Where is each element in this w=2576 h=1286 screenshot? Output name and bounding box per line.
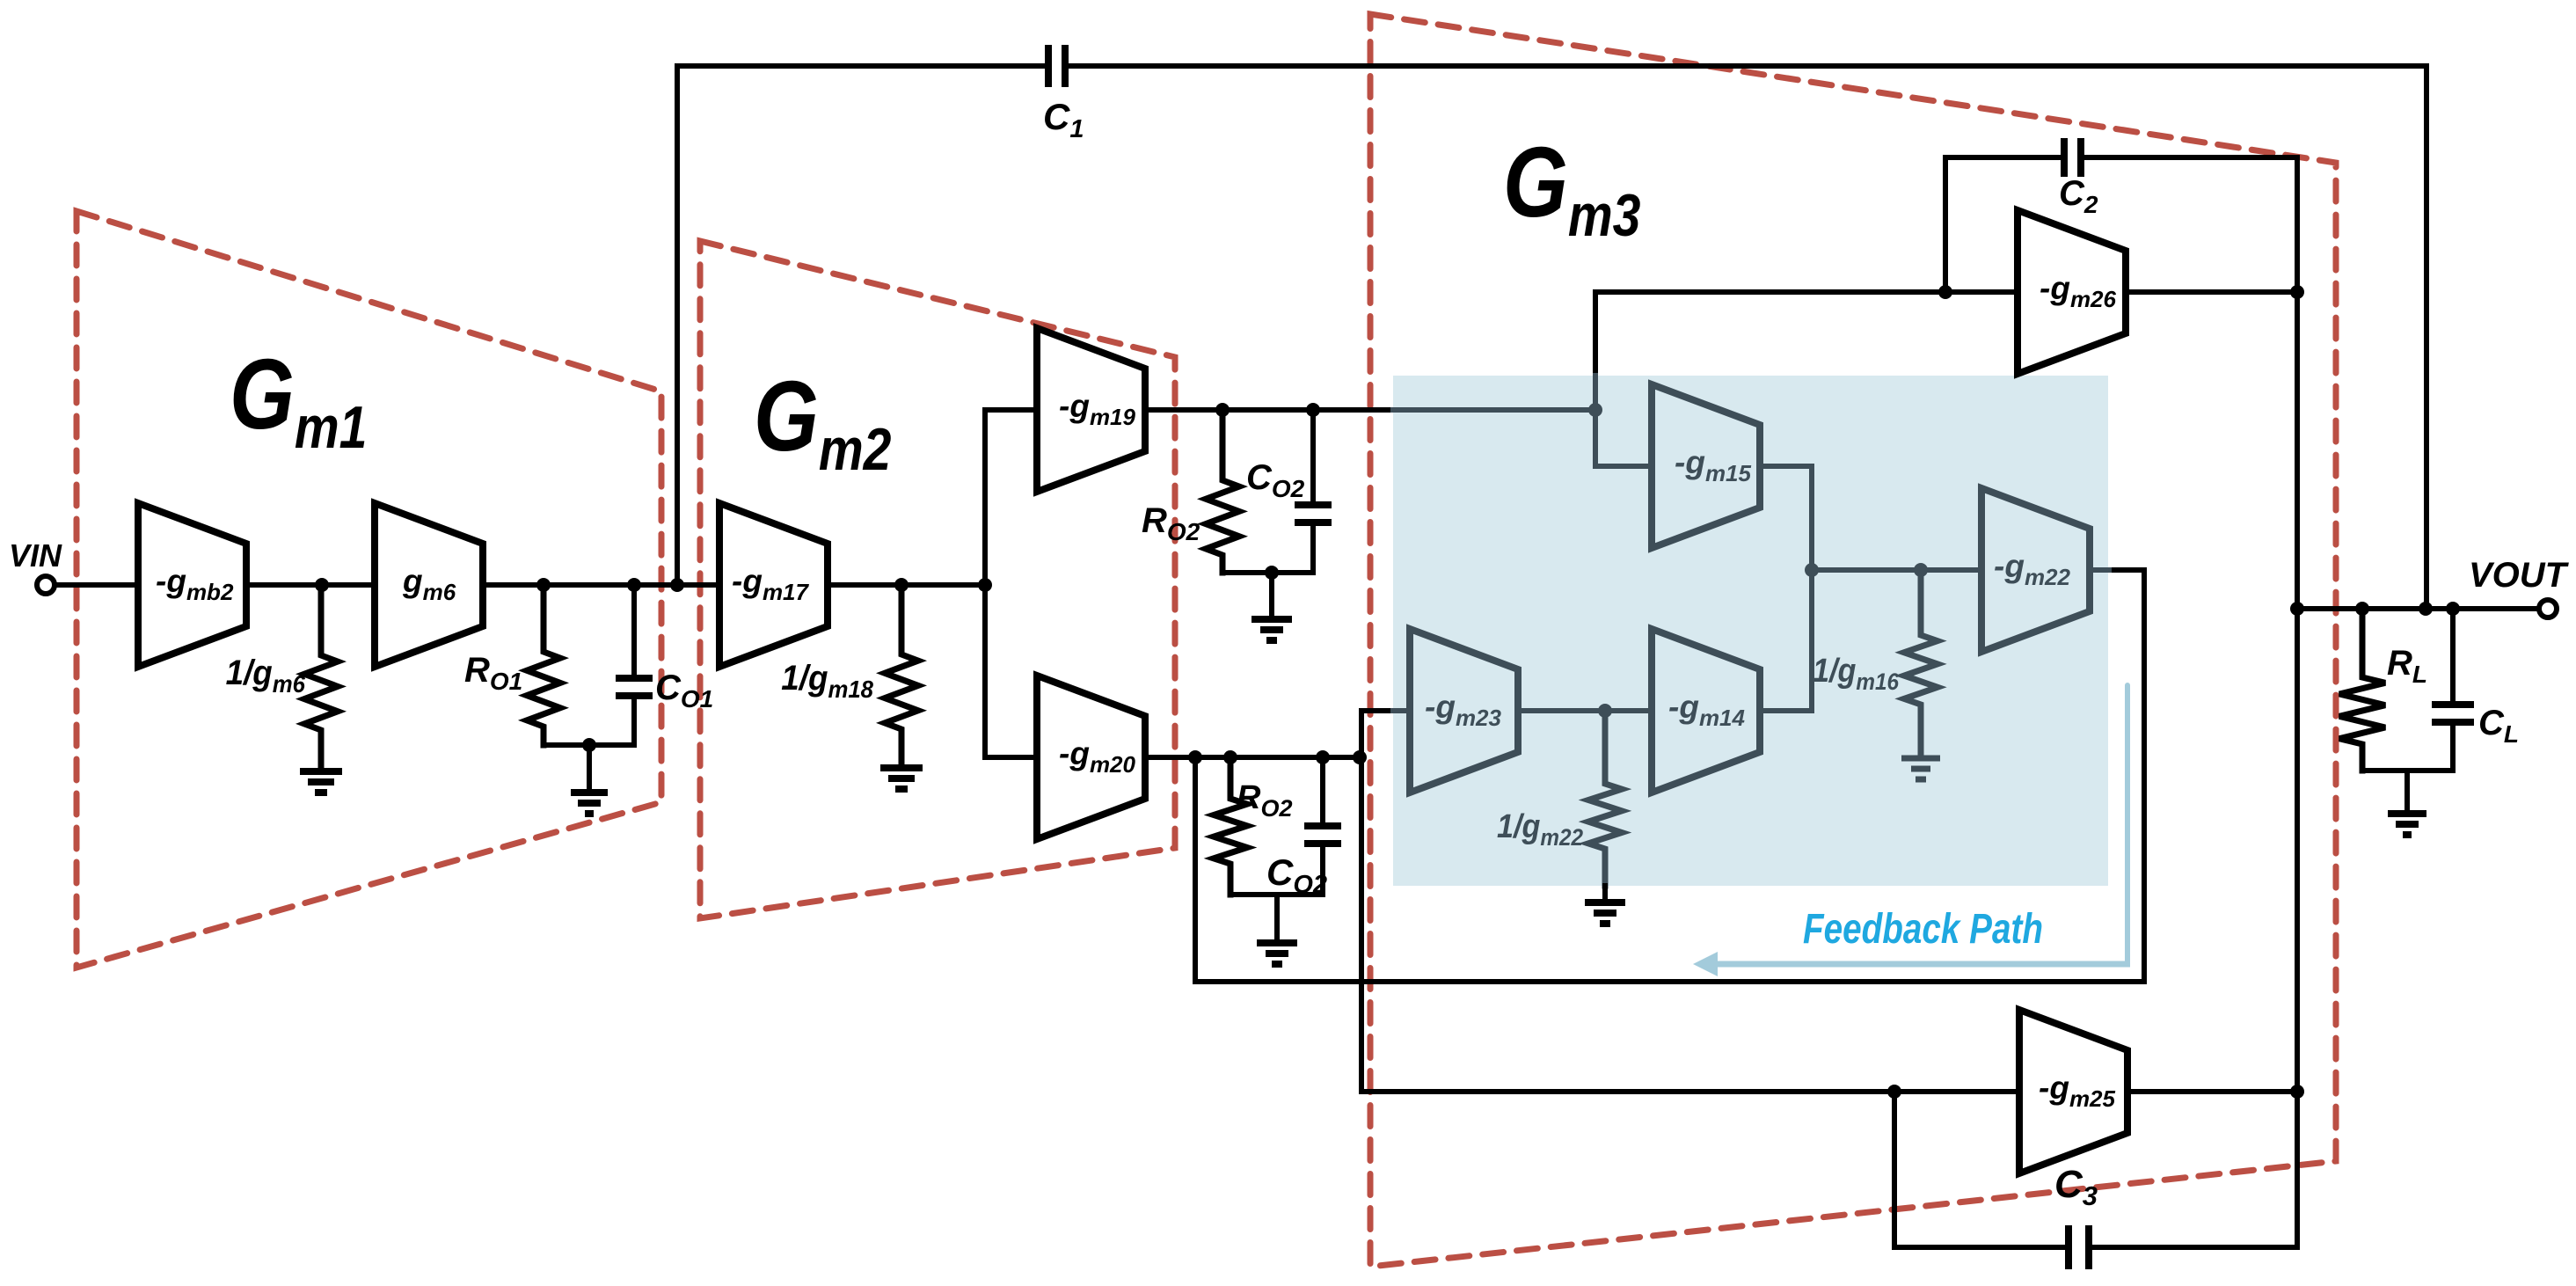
- svg-text:C3: C3: [2054, 1163, 2098, 1211]
- svg-text:CO2: CO2: [1266, 851, 1327, 899]
- svg-text:Gm1: Gm1: [230, 340, 367, 461]
- svg-text:RO2: RO2: [1142, 501, 1200, 545]
- svg-text:CL: CL: [2478, 704, 2519, 748]
- svg-text:C2: C2: [2059, 174, 2098, 218]
- svg-text:1/gm18: 1/gm18: [781, 659, 873, 704]
- svg-text:RO2: RO2: [1237, 779, 1292, 822]
- svg-text:VIN: VIN: [9, 537, 62, 574]
- svg-text:-gmb2: -gmb2: [156, 563, 234, 605]
- svg-text:-gm26: -gm26: [2040, 270, 2117, 312]
- svg-text:-gm25: -gm25: [2039, 1070, 2116, 1112]
- svg-text:RO1: RO1: [464, 651, 522, 695]
- svg-text:Feedback Path: Feedback Path: [1803, 906, 2043, 953]
- svg-text:RL: RL: [2387, 644, 2427, 688]
- svg-text:gm6: gm6: [402, 563, 456, 605]
- svg-text:-gm19: -gm19: [1059, 388, 1136, 430]
- svg-text:CO2: CO2: [1246, 458, 1305, 502]
- svg-text:1/gm6: 1/gm6: [226, 654, 306, 698]
- svg-text:Gm2: Gm2: [754, 362, 891, 483]
- svg-text:VOUT: VOUT: [2469, 556, 2570, 595]
- svg-text:-gm17: -gm17: [732, 563, 810, 605]
- svg-text:CO1: CO1: [655, 669, 713, 712]
- svg-text:C1: C1: [1043, 96, 1084, 143]
- svg-text:-gm20: -gm20: [1059, 735, 1136, 778]
- svg-text:Gm3: Gm3: [1503, 128, 1640, 249]
